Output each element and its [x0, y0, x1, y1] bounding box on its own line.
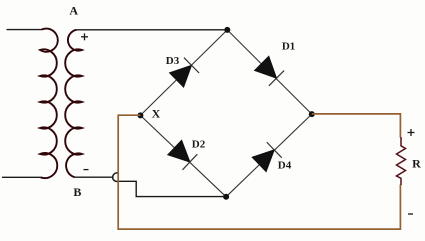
label - secondary polarity [84, 169, 89, 171]
wire: brown return X node to bottom rail to R negative lead [118, 115, 400, 229]
transformer primary winding [40, 29, 58, 178]
svg-text:D2: D2 [192, 139, 206, 151]
wire hop over brown return wire [113, 173, 118, 182]
diode D2 [168, 139, 206, 170]
wire: primary bottom lead [2, 176, 41, 178]
label + load polarity [408, 129, 415, 136]
svg-text:A: A [69, 4, 78, 18]
node: right junction [309, 111, 315, 117]
svg-text:R: R [412, 157, 421, 171]
wire: secondary top rail to bridge top node [77, 29, 228, 31]
wire: bridge arm X to bottom node [140, 115, 226, 196]
wire: bridge arm bottom node to right node [226, 114, 312, 197]
transformer secondary winding [65, 30, 82, 177]
diode D3 [166, 55, 199, 87]
svg-text:X: X [152, 107, 161, 121]
node: bottom junction [223, 194, 229, 200]
wire: bridge arm top node to right node [227, 30, 311, 114]
node: top junction [224, 27, 230, 33]
wire: secondary bottom lead to hop [75, 176, 114, 178]
resistor R [397, 137, 406, 185]
wire: brown positive right node to R top lead [312, 114, 401, 138]
svg-text:D3: D3 [166, 55, 180, 67]
diode D1 [255, 41, 296, 86]
label + secondary polarity [81, 33, 88, 40]
label - load polarity [408, 213, 413, 215]
node: X junction [137, 112, 143, 118]
svg-text:B: B [73, 185, 81, 199]
wire: hop to bridge bottom node (stepped) [118, 181, 226, 196]
diode D4 [252, 142, 292, 171]
svg-text:D1: D1 [282, 41, 295, 53]
svg-text:D4: D4 [278, 160, 292, 172]
wire: bridge arm X to top node [140, 30, 227, 116]
wire: primary top lead [7, 29, 42, 31]
